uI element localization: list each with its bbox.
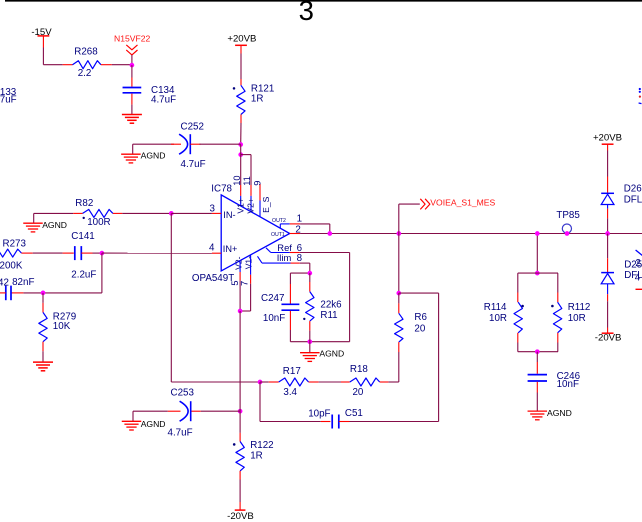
- svg-text:10pF: 10pF: [308, 408, 330, 419]
- svg-text:IC78: IC78: [211, 183, 232, 194]
- svg-text:OPA549T: OPA549T: [192, 273, 234, 284]
- svg-text:C141: C141: [71, 231, 94, 242]
- svg-text:100R: 100R: [87, 217, 110, 228]
- svg-text:4.7uF: 4.7uF: [168, 427, 193, 438]
- svg-text:AGND: AGND: [141, 419, 166, 429]
- svg-text:7: 7: [240, 281, 250, 286]
- svg-text:10K: 10K: [53, 321, 71, 332]
- svg-text:11: 11: [242, 176, 252, 186]
- svg-text:10nF: 10nF: [557, 379, 579, 390]
- svg-text:10: 10: [232, 175, 242, 185]
- svg-text:3: 3: [209, 203, 215, 214]
- svg-text:4.7uF: 4.7uF: [0, 94, 17, 105]
- svg-text:V1-: V1-: [243, 256, 253, 270]
- svg-text:V2+: V2+: [245, 198, 255, 214]
- svg-text:10R: 10R: [489, 313, 507, 324]
- svg-text:10R: 10R: [568, 313, 586, 324]
- svg-text:AGND: AGND: [42, 220, 67, 230]
- svg-text:+20VB: +20VB: [227, 33, 256, 44]
- svg-text:R273: R273: [3, 238, 27, 249]
- svg-text:4.7uF: 4.7uF: [181, 159, 206, 170]
- svg-text:C253: C253: [171, 388, 195, 399]
- svg-text:C252: C252: [181, 121, 204, 132]
- svg-text:10nF: 10nF: [263, 313, 285, 324]
- svg-text:1R: 1R: [250, 451, 263, 462]
- svg-text:4: 4: [635, 272, 641, 283]
- svg-text:82nF: 82nF: [12, 277, 34, 288]
- svg-text:+20VB: +20VB: [593, 133, 622, 144]
- svg-text:4.7uF: 4.7uF: [151, 95, 176, 106]
- svg-text:C247: C247: [261, 293, 284, 304]
- svg-text:DFL: DFL: [624, 195, 642, 206]
- svg-text:-20VB: -20VB: [595, 332, 622, 343]
- svg-text:1R: 1R: [251, 94, 264, 105]
- svg-text:D26: D26: [624, 184, 642, 195]
- svg-text:1: 1: [297, 213, 302, 224]
- svg-text:5: 5: [230, 280, 240, 285]
- svg-text:Ilim: Ilim: [277, 252, 292, 263]
- svg-text:22k6: 22k6: [320, 299, 342, 310]
- svg-text:R268: R268: [74, 46, 98, 57]
- svg-text:R112: R112: [568, 302, 591, 313]
- svg-text:TP85: TP85: [556, 210, 580, 221]
- svg-text:R18: R18: [350, 364, 369, 375]
- svg-text:9: 9: [252, 181, 262, 186]
- svg-text:IN+: IN+: [223, 244, 238, 254]
- svg-text:VOIEA_S1_MES: VOIEA_S1_MES: [430, 197, 495, 207]
- svg-text:AGND: AGND: [547, 408, 572, 418]
- svg-text:3.4: 3.4: [283, 387, 297, 398]
- svg-text:AGND: AGND: [319, 348, 344, 358]
- svg-text:4: 4: [209, 242, 215, 253]
- svg-text:R11: R11: [320, 310, 337, 321]
- svg-text:R114: R114: [484, 302, 507, 313]
- svg-text:2: 2: [635, 258, 640, 269]
- svg-text:-20VB: -20VB: [227, 511, 254, 522]
- svg-text:20: 20: [414, 323, 425, 334]
- svg-text:C51: C51: [345, 408, 363, 419]
- svg-text:2.2: 2.2: [78, 68, 92, 79]
- svg-text:R6: R6: [414, 312, 427, 323]
- svg-text:8: 8: [297, 253, 303, 264]
- svg-text:IN-: IN-: [223, 210, 235, 220]
- svg-text:OUT1: OUT1: [271, 232, 285, 238]
- svg-text:20: 20: [352, 387, 363, 398]
- svg-text:AGND: AGND: [141, 150, 166, 160]
- svg-text:3: 3: [299, 0, 314, 26]
- svg-text:N15VF22: N15VF22: [114, 34, 151, 44]
- svg-text:200K: 200K: [0, 261, 23, 272]
- svg-text:R82: R82: [75, 198, 93, 209]
- svg-text:2: 2: [295, 224, 300, 235]
- svg-text:E_S: E_S: [261, 196, 271, 213]
- svg-text:OUT2: OUT2: [272, 218, 286, 224]
- svg-text:2.2uF: 2.2uF: [71, 270, 96, 281]
- svg-text:V1+: V1+: [235, 198, 245, 214]
- svg-text:R17: R17: [283, 366, 301, 377]
- svg-text:R122: R122: [250, 440, 273, 451]
- svg-text:C242: C242: [0, 277, 9, 288]
- svg-text:V2-: V2-: [234, 256, 244, 270]
